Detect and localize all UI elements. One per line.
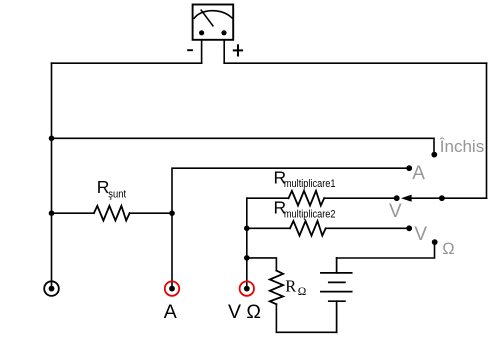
svg-text:multiplicare2: multiplicare2 xyxy=(284,208,336,220)
wire battery top to Ohm contact xyxy=(337,242,435,258)
wire R ohm bottom to battery xyxy=(276,304,336,332)
wiper arrow head xyxy=(401,195,412,202)
node junction multiplier rail / R ohm xyxy=(244,255,250,261)
wire R sunt to junction xyxy=(130,212,172,214)
meter M1 xyxy=(193,5,234,40)
wire to Inchis contact xyxy=(52,138,435,154)
svg-text:V: V xyxy=(414,224,427,245)
wire meter plus lead xyxy=(223,40,225,63)
wiper arm wire xyxy=(411,197,486,199)
node junction multiplier rail / R multiplicare2 xyxy=(244,226,250,232)
node wiper pivot xyxy=(439,195,445,201)
wire R multiplicare2 to V2 contact xyxy=(326,227,410,229)
resistor R multiplicare2 xyxy=(290,221,326,236)
wire multiplier rail xyxy=(246,198,248,288)
svg-text:Ω: Ω xyxy=(298,286,307,298)
svg-text:V Ω: V Ω xyxy=(228,301,261,323)
meter plus label xyxy=(234,45,242,55)
svg-text:şunt: şunt xyxy=(108,188,126,200)
resistor R sunt xyxy=(94,206,130,221)
svg-text:V: V xyxy=(389,201,402,222)
node contact Inchis xyxy=(431,152,437,158)
svg-text:Ω: Ω xyxy=(442,240,454,258)
svg-text:R: R xyxy=(285,277,296,296)
svg-text:multiplicare1: multiplicare1 xyxy=(284,178,336,190)
node contact V2 xyxy=(406,225,412,231)
terminal common xyxy=(44,281,59,296)
wire top right horizontal xyxy=(224,62,486,64)
svg-text:A: A xyxy=(164,301,177,323)
wire meter minus lead xyxy=(201,40,203,63)
wire junction up and to A contact xyxy=(172,168,409,213)
wire top left horizontal xyxy=(52,62,202,64)
node contact Ohm xyxy=(432,239,438,245)
terminal A xyxy=(165,281,179,295)
wire to R multiplicare1 xyxy=(247,197,289,199)
wire right rail xyxy=(486,63,488,198)
node junction left rail / Inchis wire xyxy=(49,136,55,142)
wire left rail xyxy=(51,63,53,288)
node contact A xyxy=(406,165,412,171)
resistor R multiplicare1 xyxy=(289,191,325,206)
svg-text:A: A xyxy=(412,163,425,184)
node contact V1 xyxy=(394,195,400,201)
svg-text:Închis: Închis xyxy=(439,137,484,156)
wire R multiplicare1 to V contact xyxy=(324,197,397,199)
wire junction to R ohm top xyxy=(247,258,277,271)
resistor R ohm xyxy=(270,271,283,305)
meter minus label xyxy=(188,49,192,51)
wire junction down to terminal A xyxy=(171,213,173,288)
node junction R sunt right xyxy=(169,210,175,216)
node junction left rail / R sunt xyxy=(49,210,55,216)
wire to R multiplicare2 xyxy=(247,227,290,229)
battery B1 xyxy=(321,258,352,332)
wire left rail to R sunt xyxy=(52,212,94,214)
terminal V Ohm xyxy=(240,281,254,295)
